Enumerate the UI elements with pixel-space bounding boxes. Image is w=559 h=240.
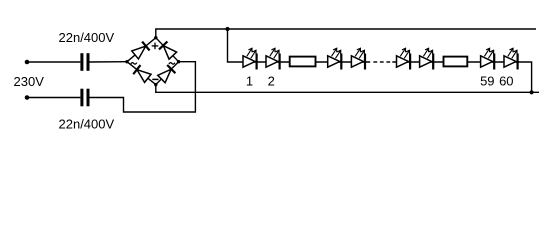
- LED D60: [504, 48, 519, 69]
- LED D1: [243, 48, 258, 69]
- wire: bridge + output stub to top rail: [156, 29, 536, 38]
- wire: neutral input to C2: [27, 97, 80, 99]
- node: bridge AC left vertex: [125, 60, 128, 63]
- bridge diode D_d (- to AC right): [157, 65, 175, 83]
- node: top rail junction: [225, 27, 229, 31]
- label: bridge ~ AC mark left: [131, 63, 137, 65]
- wire: C2 under-bridge bypass to AC right node: [90, 62, 196, 112]
- wire: dashed continuation of LED string: [373, 61, 390, 63]
- wire: LED 60 output down to bottom rail: [517, 62, 532, 92]
- LED D4: [351, 48, 366, 69]
- node: mains neutral terminal: [25, 95, 30, 100]
- label: bridge - polarity mark: [152, 78, 158, 80]
- svg-text:60: 60: [499, 74, 513, 89]
- bridge diode D_a (AC left to +): [131, 42, 149, 60]
- svg-text:230V: 230V: [14, 74, 45, 89]
- node: mains live terminal: [25, 60, 30, 65]
- bridge diode D_b (AC right to +): [159, 42, 177, 60]
- resistor R1: [290, 57, 316, 67]
- node: bridge AC right vertex: [177, 60, 180, 63]
- label: bridge + polarity mark: [152, 43, 159, 50]
- node: bottom rail junction: [530, 90, 534, 94]
- LED D6: [420, 48, 435, 69]
- LED D5: [397, 48, 412, 69]
- capacitor C1 22n/400V (top): [80, 53, 89, 71]
- svg-text:22n/400V: 22n/400V: [59, 30, 115, 45]
- wire: live input to C1: [27, 61, 80, 63]
- label: bridge ~ AC mark right: [169, 63, 175, 65]
- wire: drop from top rail to LED string: [228, 29, 244, 62]
- svg-text:2: 2: [268, 74, 275, 89]
- bridge rectifier B1 diamond outline: [127, 38, 179, 85]
- LED D2: [266, 48, 281, 69]
- LED D3: [328, 48, 343, 69]
- wire: LED string base line: [243, 61, 370, 63]
- capacitor C2 22n/400V (bottom): [80, 89, 89, 107]
- svg-text:59: 59: [480, 74, 494, 89]
- wire: C1 to bridge AC left node: [90, 61, 128, 63]
- node: bridge - vertex: [154, 83, 157, 86]
- svg-text:22n/400V: 22n/400V: [59, 117, 115, 132]
- wire: bridge - output stub to bottom rail: [156, 85, 539, 93]
- svg-text:1: 1: [246, 74, 253, 89]
- node: bridge + vertex: [154, 36, 157, 39]
- wire: [392, 61, 519, 63]
- LED D59: [481, 48, 496, 69]
- bridge diode D_c (- to AC left): [133, 65, 151, 83]
- resistor R2: [444, 57, 468, 67]
